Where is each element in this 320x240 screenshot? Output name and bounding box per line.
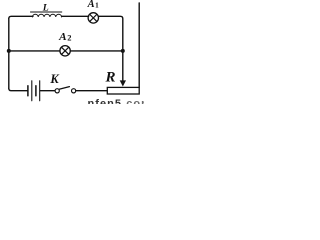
lamp A2 cross (62, 47, 69, 54)
junction dot at right (A2 branch joins A1 branch) (121, 49, 125, 53)
lamp A2 circle (60, 46, 70, 56)
battery plate short (negative, left) (27, 86, 29, 96)
switch K left contact circle (55, 89, 59, 93)
switch K right contact circle (72, 89, 76, 93)
svg-text:2: 2 (67, 33, 71, 43)
middle wire: left T to lamp A2 (9, 50, 60, 52)
inductor L core bar (31, 11, 62, 13)
wire: switch K to rheostat (76, 90, 107, 92)
wire: junction down to rheostat slider (122, 51, 124, 81)
wire: left vertical (top-left corner to bottom-left corner) (8, 19, 10, 89)
wire: lamp A1 to top-right corner, down to junction (99, 16, 123, 51)
wire: right vertical down to rheostat right terminal (138, 3, 140, 87)
switch K lever (60, 87, 70, 90)
lamp A1 cross (90, 15, 97, 22)
lamp A1 circle (88, 13, 98, 23)
watermark cut-off text at bottom (88, 98, 152, 110)
wire: battery to switch K (40, 90, 54, 92)
svg-text:A: A (87, 0, 95, 10)
rheostat R body box (107, 87, 139, 94)
wire: coil to lamp A1 (62, 15, 89, 17)
middle wire: lamp A2 to right junction (70, 50, 123, 52)
battery plate long (positive) (31, 81, 33, 101)
wire: top-left corner, top wire lead to coil (9, 16, 33, 18)
rheostat slider arrowhead (120, 80, 126, 86)
svg-text:K: K (49, 72, 60, 86)
svg-text:L: L (42, 3, 49, 14)
wire: bottom-left corner to battery (9, 88, 27, 90)
junction dot at left (A2 branch joins left vertical) (7, 49, 11, 53)
battery plate long (positive, right cell) (39, 81, 41, 101)
svg-text:R: R (105, 70, 116, 86)
svg-text:A: A (58, 32, 67, 43)
inductor L coil (5 humps) (32, 14, 61, 17)
svg-text:1: 1 (95, 2, 99, 10)
battery plate short (negative, right cell) (35, 86, 37, 96)
